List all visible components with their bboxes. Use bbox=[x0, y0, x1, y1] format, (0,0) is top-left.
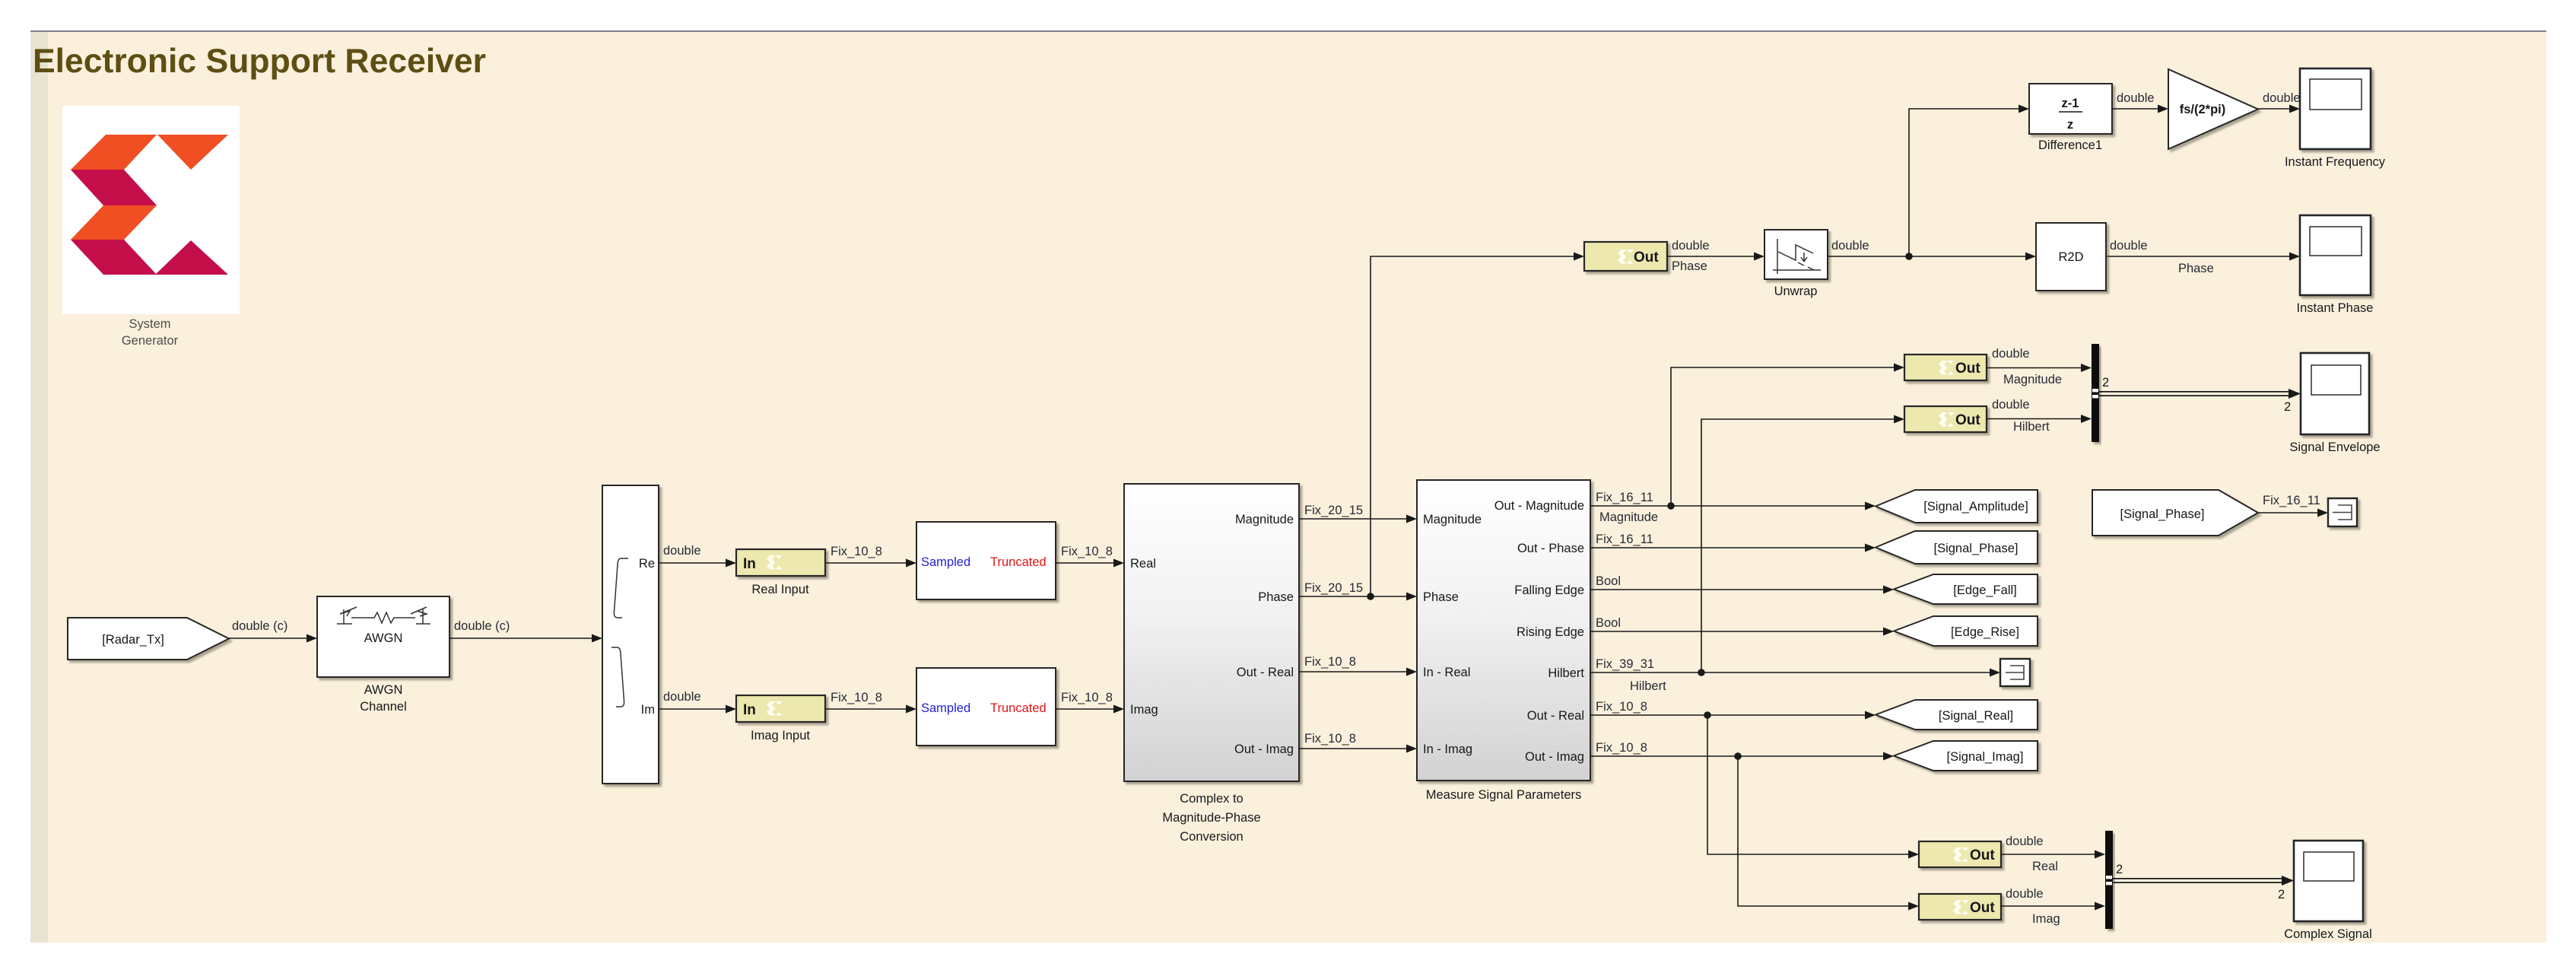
svg-text:Phase: Phase bbox=[1423, 590, 1459, 604]
svg-text:Phase: Phase bbox=[2178, 262, 2214, 275]
svg-text:[Signal_Amplitude]: [Signal_Amplitude] bbox=[1923, 500, 2028, 514]
svg-text:double (c): double (c) bbox=[232, 619, 287, 633]
svg-text:Fix_10_8: Fix_10_8 bbox=[1061, 691, 1113, 704]
svg-text:Measure Signal Parameters: Measure Signal Parameters bbox=[1426, 788, 1582, 802]
svg-text:System: System bbox=[129, 317, 170, 331]
svg-text:AWGN: AWGN bbox=[364, 631, 403, 645]
junction node imag bbox=[1734, 752, 1742, 760]
svg-text:double: double bbox=[663, 690, 701, 704]
Complex to Magnitude-Phase Conversion block bbox=[1124, 484, 1299, 844]
wire Sampled2 to conversion Imag bbox=[1056, 708, 1114, 710]
svg-text:Out - Real: Out - Real bbox=[1527, 709, 1584, 723]
svg-text:double: double bbox=[2006, 835, 2044, 848]
from tag [Radar_Tx] bbox=[68, 618, 229, 660]
goto tag [Edge_Fall] bbox=[1894, 574, 2038, 604]
svg-text:Fix_10_8: Fix_10_8 bbox=[1304, 655, 1356, 669]
svg-text:fs/(2*pi): fs/(2*pi) bbox=[2180, 103, 2226, 116]
svg-text:Complex Signal: Complex Signal bbox=[2284, 927, 2372, 941]
svg-text:In: In bbox=[743, 556, 756, 572]
svg-text:Electronic Support Receiver: Electronic Support Receiver bbox=[33, 43, 486, 80]
Measure Signal Parameters block bbox=[1417, 480, 1590, 802]
wire Im to Imag Input gateway bbox=[659, 708, 726, 710]
Sampled Truncated block 2 bbox=[916, 668, 1056, 746]
terminator right bbox=[2328, 498, 2357, 526]
svg-text:double: double bbox=[2263, 91, 2301, 105]
svg-text:z-1: z-1 bbox=[2062, 97, 2079, 110]
Difference1 block bbox=[2029, 84, 2112, 152]
wire conversion Phase to measure Phase bbox=[1299, 596, 1407, 597]
wire Out-Magnitude to Signal_Amplitude tag bbox=[1590, 505, 1866, 507]
svg-text:Out - Phase: Out - Phase bbox=[1517, 542, 1584, 555]
svg-text:Imag: Imag bbox=[1130, 703, 1158, 717]
svg-text:Phase: Phase bbox=[1258, 590, 1294, 604]
top divider line bbox=[30, 30, 2546, 32]
wire Rising Edge to Edge_Rise tag bbox=[1590, 631, 1884, 632]
svg-text:Fix_20_15: Fix_20_15 bbox=[1304, 581, 1363, 595]
svg-text:Out: Out bbox=[1634, 250, 1659, 266]
svg-text:Unwrap: Unwrap bbox=[1774, 285, 1818, 298]
svg-text:Phase: Phase bbox=[1672, 259, 1707, 273]
svg-text:z: z bbox=[2067, 118, 2073, 132]
svg-text:Re: Re bbox=[639, 557, 655, 571]
vector wire mux to Signal Envelope scope bbox=[2099, 391, 2292, 393]
wire conversion Out-Real to measure In-Real bbox=[1299, 671, 1407, 673]
svg-text:Out: Out bbox=[1955, 412, 1980, 428]
wire Out-Imag to Signal_Imag tag bbox=[1590, 755, 1884, 757]
svg-text:Real: Real bbox=[2032, 860, 2058, 873]
svg-text:Instant Frequency: Instant Frequency bbox=[2285, 155, 2386, 169]
svg-text:[Edge_Rise]: [Edge_Rise] bbox=[1951, 625, 2019, 639]
goto tag [Signal_Imag] bbox=[1894, 741, 2038, 771]
goto tag [Signal_Phase] bbox=[1876, 531, 2038, 564]
svg-text:Fix_10_8: Fix_10_8 bbox=[831, 691, 882, 704]
Sampled Truncated block 1 bbox=[916, 522, 1056, 599]
wire branch up to Difference1 bbox=[1909, 109, 2019, 256]
gateway Out Imag (bottom) bbox=[1919, 894, 2001, 920]
svg-text:Difference1: Difference1 bbox=[2038, 138, 2102, 152]
goto tag [Signal_Real] bbox=[1876, 700, 2038, 730]
wire Radar_Tx to AWGN bbox=[229, 638, 307, 639]
svg-text:double: double bbox=[1992, 347, 2030, 361]
wire real branch down to Out gateway bbox=[1707, 715, 1909, 854]
wire Out Real to mux2 bbox=[2001, 854, 2095, 855]
svg-text:double: double bbox=[1831, 239, 1869, 253]
svg-text:2: 2 bbox=[2102, 376, 2109, 390]
svg-text:Truncated: Truncated bbox=[990, 701, 1047, 715]
svg-text:Out - Imag: Out - Imag bbox=[1234, 742, 1294, 756]
svg-text:Falling Edge: Falling Edge bbox=[1514, 583, 1584, 597]
svg-text:double: double bbox=[2006, 887, 2044, 901]
svg-text:Fix_10_8: Fix_10_8 bbox=[1596, 700, 1647, 714]
svg-text:Instant Phase: Instant Phase bbox=[2297, 301, 2374, 315]
svg-text:Fix_39_31: Fix_39_31 bbox=[1596, 657, 1654, 671]
svg-text:Sampled: Sampled bbox=[921, 555, 970, 569]
from tag [Signal_Phase] right bbox=[2092, 490, 2258, 536]
svg-text:Hilbert: Hilbert bbox=[1548, 666, 1584, 680]
wire conversion Magnitude to measure Magnitude bbox=[1299, 518, 1407, 520]
scope Instant Phase bbox=[2297, 215, 2374, 315]
junction node unwrap out bbox=[1905, 253, 1913, 260]
wire imag branch down to Out gateway bbox=[1738, 756, 1909, 906]
svg-text:Bool: Bool bbox=[1596, 574, 1621, 588]
svg-text:Fix_10_8: Fix_10_8 bbox=[1596, 741, 1647, 755]
svg-text:Magnitude: Magnitude bbox=[1599, 510, 1658, 524]
terminator on hilbert wire bbox=[2000, 659, 2030, 686]
svg-text:Fix_10_8: Fix_10_8 bbox=[831, 545, 882, 558]
wire Out Imag to mux2 bbox=[2001, 905, 2095, 907]
svg-text:2: 2 bbox=[2278, 888, 2285, 901]
wire Real Input to Sampled1 bbox=[825, 562, 907, 564]
svg-text:In - Imag: In - Imag bbox=[1423, 742, 1472, 756]
complex to real-imag splitter block bbox=[602, 485, 659, 784]
svg-text:R2D: R2D bbox=[2058, 250, 2083, 264]
wire Out-Real to Signal_Real tag bbox=[1590, 714, 1866, 716]
svg-text:Fix_20_15: Fix_20_15 bbox=[1304, 504, 1363, 517]
svg-text:[Signal_Imag]: [Signal_Imag] bbox=[1947, 750, 2024, 764]
AWGN Channel block bbox=[317, 596, 449, 714]
svg-text:double: double bbox=[2117, 91, 2155, 105]
svg-text:Complex to: Complex to bbox=[1180, 792, 1243, 806]
svg-text:Truncated: Truncated bbox=[990, 555, 1047, 569]
wire Sampled1 to conversion Real bbox=[1056, 562, 1114, 564]
goto tag [Signal_Amplitude] bbox=[1876, 490, 2038, 523]
svg-text:Out: Out bbox=[1970, 847, 1995, 863]
svg-text:Magnitude-Phase: Magnitude-Phase bbox=[1162, 811, 1260, 825]
junction node magnitude bbox=[1667, 502, 1675, 510]
svg-text:AWGN: AWGN bbox=[364, 683, 403, 697]
wire Out-Phase to Signal_Phase tag bbox=[1590, 547, 1866, 549]
svg-text:Magnitude: Magnitude bbox=[2003, 373, 2062, 386]
wire Out Phase gateway to Unwrap bbox=[1667, 256, 1755, 257]
svg-text:[Radar_Tx]: [Radar_Tx] bbox=[102, 633, 164, 647]
goto tag [Edge_Rise] bbox=[1894, 616, 2038, 646]
svg-text:2: 2 bbox=[2116, 863, 2123, 876]
svg-text:Hilbert: Hilbert bbox=[2013, 420, 2050, 434]
svg-text:Out - Real: Out - Real bbox=[1237, 666, 1294, 679]
R2D block bbox=[2036, 223, 2106, 291]
scope Signal Envelope bbox=[2289, 353, 2380, 454]
junction node on phase wire bbox=[1367, 593, 1374, 600]
wire Re to Real Input gateway bbox=[659, 562, 726, 564]
svg-text:[Edge_Fall]: [Edge_Fall] bbox=[1953, 583, 2016, 597]
System Generator block bbox=[62, 106, 240, 348]
wire AWGN to complex splitter bbox=[449, 638, 592, 639]
wire Out Magnitude to mux bbox=[1987, 367, 2082, 369]
svg-text:Bool: Bool bbox=[1596, 616, 1621, 630]
svg-text:2: 2 bbox=[2284, 400, 2291, 414]
scope Complex Signal bbox=[2284, 841, 2372, 941]
wire Out Hilbert to mux bbox=[1987, 418, 2082, 420]
svg-text:Fix_10_8: Fix_10_8 bbox=[1061, 545, 1113, 558]
Unwrap block bbox=[1764, 230, 1828, 298]
svg-text:Real Input: Real Input bbox=[751, 583, 809, 596]
wire Signal_Phase tag to terminator bbox=[2258, 512, 2318, 514]
svg-text:In: In bbox=[743, 702, 756, 718]
svg-text:Out - Magnitude: Out - Magnitude bbox=[1494, 499, 1584, 513]
svg-text:[Signal_Real]: [Signal_Real] bbox=[1939, 709, 2013, 723]
gateway In Imag Input bbox=[736, 695, 825, 742]
svg-text:Hilbert: Hilbert bbox=[1630, 679, 1666, 693]
wire hilbert branch to Out gateway bbox=[1701, 419, 1895, 673]
wire Falling Edge to Edge_Fall tag bbox=[1590, 589, 1884, 590]
gateway Out Magnitude bbox=[1904, 355, 1987, 380]
scope Instant Frequency bbox=[2285, 68, 2386, 169]
svg-text:Fix_16_11: Fix_16_11 bbox=[1596, 491, 1653, 504]
wire phase branch up to Out Phase gateway bbox=[1371, 256, 1574, 596]
svg-text:Fix_16_11: Fix_16_11 bbox=[2263, 494, 2320, 507]
mux complex signal bbox=[2105, 831, 2113, 929]
svg-text:Generator: Generator bbox=[122, 334, 179, 348]
wire magnitude branch to Out gateway bbox=[1671, 367, 1895, 506]
wire Difference1 to gain bbox=[2112, 108, 2158, 110]
svg-text:Fix_10_8: Fix_10_8 bbox=[1304, 732, 1356, 746]
svg-text:double: double bbox=[1992, 398, 2030, 412]
gain fs/(2*pi) bbox=[2168, 69, 2258, 149]
svg-text:Im: Im bbox=[641, 703, 655, 717]
svg-text:Real: Real bbox=[1130, 557, 1156, 571]
svg-text:double: double bbox=[2110, 239, 2148, 253]
svg-text:Out: Out bbox=[1970, 900, 1995, 916]
svg-text:Rising Edge: Rising Edge bbox=[1517, 625, 1584, 639]
mux envelope bbox=[2092, 344, 2099, 442]
wire gain to Instant Frequency scope bbox=[2258, 108, 2290, 110]
svg-text:double (c): double (c) bbox=[454, 619, 510, 633]
svg-text:Out - Imag: Out - Imag bbox=[1525, 750, 1584, 764]
svg-text:Magnitude: Magnitude bbox=[1423, 513, 1482, 526]
gateway Out Phase (top) bbox=[1584, 242, 1667, 271]
svg-text:Signal Envelope: Signal Envelope bbox=[2289, 440, 2380, 454]
wire R2D to Instant Phase scope bbox=[2106, 256, 2290, 257]
svg-text:In - Real: In - Real bbox=[1423, 666, 1470, 679]
junction node hilbert bbox=[1698, 669, 1705, 676]
svg-text:Imag Input: Imag Input bbox=[751, 729, 810, 742]
vector wire mux2 to Complex Signal scope bbox=[2113, 878, 2285, 879]
svg-text:Channel: Channel bbox=[360, 700, 406, 714]
svg-text:Magnitude: Magnitude bbox=[1235, 513, 1294, 526]
svg-text:Sampled: Sampled bbox=[921, 701, 970, 715]
left scroll strip bbox=[30, 32, 48, 943]
gateway In Real Input bbox=[736, 549, 825, 596]
gateway Out Real (bottom) bbox=[1919, 841, 2001, 867]
gateway Out Hilbert bbox=[1904, 406, 1987, 432]
wire Imag Input to Sampled2 bbox=[825, 708, 907, 710]
svg-text:double: double bbox=[663, 544, 701, 558]
wire conversion Out-Imag to measure In-Imag bbox=[1299, 748, 1407, 749]
svg-text:Conversion: Conversion bbox=[1180, 830, 1243, 844]
svg-text:[Signal_Phase]: [Signal_Phase] bbox=[2120, 507, 2205, 521]
wire Unwrap to junction and R2D bbox=[1828, 256, 2026, 257]
svg-text:double: double bbox=[1672, 239, 1710, 253]
junction node real bbox=[1704, 711, 1711, 719]
svg-text:Fix_16_11: Fix_16_11 bbox=[1596, 533, 1653, 546]
wire Hilbert to terminator bbox=[1590, 672, 1990, 673]
svg-text:Imag: Imag bbox=[2032, 912, 2060, 926]
svg-text:Out: Out bbox=[1955, 361, 1980, 377]
svg-text:[Signal_Phase]: [Signal_Phase] bbox=[1934, 542, 2019, 555]
